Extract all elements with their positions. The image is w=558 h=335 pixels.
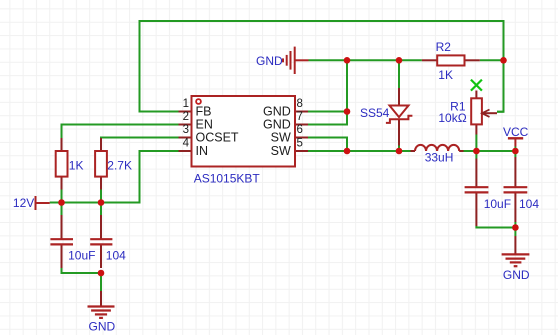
capacitor 10uF right top pin	[475, 159, 477, 187]
svg-text:6: 6	[297, 124, 303, 136]
svg-text:SW: SW	[271, 131, 291, 145]
inductor 33uH left stub	[411, 150, 416, 152]
capacitor 10uF left plates	[50, 239, 73, 244]
junction node VCC rail / R1	[473, 148, 480, 155]
wire right caps bottom join	[476, 226, 515, 228]
wire IN to 12V rail	[50, 151, 179, 203]
wire diode anode to GND rail	[398, 60, 400, 88]
wire diode cathode to SW rail	[398, 146, 400, 152]
wire pin7 GND up to rail	[308, 60, 347, 124]
svg-text:GND: GND	[263, 105, 291, 119]
potentiometer R1 top pin	[475, 91, 477, 99]
junction node VCC rail / VCC port	[512, 148, 519, 155]
wire GND rail right of R2	[480, 59, 504, 61]
power port VCC (bar)	[508, 138, 523, 146]
svg-text:104: 104	[106, 248, 126, 262]
svg-text:33uH: 33uH	[425, 150, 454, 164]
junction node 12V/2.7K	[98, 199, 105, 206]
capacitor 10uF right bottom pin	[475, 193, 477, 226]
capacitor 104 right top pin	[514, 157, 516, 187]
svg-text:104: 104	[519, 197, 539, 211]
IC U1 pin 3 stub	[179, 137, 192, 139]
capacitor 104 left top pin	[100, 215, 102, 239]
svg-text:AS1015KBT: AS1015KBT	[194, 172, 261, 186]
capacitor 10uF left top pin	[61, 215, 63, 239]
inductor 33uH arcs	[415, 145, 459, 151]
svg-text:FB: FB	[196, 105, 212, 119]
junction node GND rail / pin8 vertical	[344, 57, 351, 64]
resistor 2.7K top pin	[100, 138, 102, 151]
capacitor 104 right bottom pin	[514, 193, 516, 222]
no-ERC cross on R1 top	[471, 80, 482, 91]
wire VCC node to right 104	[514, 151, 516, 157]
wire EN to 1K resistor	[62, 125, 179, 139]
wire rail to 10uF cap	[61, 203, 63, 216]
IC U1 pin 8 stub	[295, 111, 308, 113]
svg-text:GND: GND	[89, 320, 116, 334]
wire wiper green	[497, 111, 504, 113]
svg-text:SW: SW	[271, 144, 291, 158]
wire R1 bottom to VCC rail	[475, 135, 477, 152]
svg-text:10uF: 10uF	[484, 197, 511, 211]
potentiometer R1 bottom pin	[475, 124, 477, 134]
capacitor 104 left plates	[90, 239, 112, 244]
svg-text:GND: GND	[503, 268, 530, 282]
junction node pin8 wire	[344, 108, 351, 115]
resistor 1K body	[56, 151, 68, 177]
wire OCSET to 2.7K resistor	[101, 137, 179, 140]
svg-text:3: 3	[183, 124, 189, 136]
wire 1K bottom to rail	[61, 190, 63, 203]
wire SW rail pin5 to inductor	[308, 150, 411, 152]
resistor R2 left pin	[422, 59, 437, 61]
capacitor 104 right plates	[504, 187, 528, 192]
diode SS54 cathode pin	[398, 120, 400, 146]
ground GND bottom-right	[502, 254, 530, 266]
ground stem bottom-left	[100, 291, 102, 306]
svg-text:10kΩ: 10kΩ	[438, 111, 466, 125]
resistor R2 body	[437, 55, 464, 65]
wire pin8 GND	[308, 111, 347, 113]
wire left caps bottom to GND	[62, 268, 102, 291]
svg-text:GND: GND	[263, 118, 291, 132]
diode SS54 triangle	[390, 106, 409, 118]
IC U1 pin 5 stub	[295, 150, 308, 152]
ground GND top (rotated, stem right)	[283, 47, 309, 74]
svg-text:1: 1	[183, 98, 189, 110]
svg-text:2: 2	[183, 111, 189, 123]
junction node GND rail / top loop	[500, 57, 507, 64]
IC U1 pin 1 stub	[179, 111, 192, 113]
svg-text:7: 7	[297, 111, 303, 123]
wire FB net: pin1 to top loop to R1 wiper	[140, 21, 504, 112]
svg-text:2.7K: 2.7K	[107, 159, 132, 173]
junction node left caps GND	[98, 270, 105, 277]
IC U1 AS1015KBT body	[192, 96, 296, 167]
svg-text:10uF: 10uF	[68, 248, 95, 262]
wire VCC power stub	[514, 147, 516, 152]
wire VCC node to right 10uF	[475, 151, 477, 159]
potentiometer R1 wiper arrow	[483, 112, 498, 114]
svg-text:12V: 12V	[13, 196, 34, 210]
diode SS54 anode pin	[398, 88, 400, 106]
diode SS54 schottky bar	[386, 116, 413, 123]
ground stem bottom-right	[514, 236, 516, 254]
junction node 12V/1K	[58, 199, 65, 206]
junction node SW rail / pin6	[344, 148, 351, 155]
ground GND bottom-left	[88, 307, 115, 318]
IC U1 pin 6 stub	[295, 137, 308, 139]
resistor 2.7K body	[95, 151, 107, 177]
wire GND rail left of R2	[309, 59, 422, 61]
svg-text:GND: GND	[256, 54, 283, 68]
capacitor 10uF left bottom pin	[61, 245, 63, 268]
svg-text:VCC: VCC	[503, 125, 529, 139]
capacitor 104 left bottom pin	[100, 245, 102, 268]
resistor 2.7K bottom pin	[100, 177, 102, 190]
inductor 33uH right stub	[459, 150, 463, 152]
junction node right caps GND	[512, 224, 519, 231]
IC U1 pin1 indicator	[196, 99, 201, 104]
resistor 1K bottom pin	[61, 177, 63, 190]
svg-text:OCSET: OCSET	[196, 131, 239, 145]
svg-text:1K: 1K	[69, 159, 84, 173]
svg-text:8: 8	[297, 98, 303, 110]
svg-text:IN: IN	[196, 144, 209, 158]
wire 2.7K bottom to rail	[100, 190, 102, 203]
capacitor 10uF right plates	[465, 187, 489, 192]
junction node SW rail / diode	[396, 148, 403, 155]
IC U1 pin 4 stub	[179, 150, 192, 152]
junction node GND rail / diode	[396, 57, 403, 64]
wire rail to 104 cap	[100, 203, 102, 216]
wire right 104 bottom to GND	[514, 222, 516, 236]
svg-text:5: 5	[297, 138, 303, 150]
wire inductor to VCC node	[464, 150, 516, 152]
resistor R2 right pin	[465, 59, 480, 61]
svg-text:SS54: SS54	[360, 106, 390, 120]
resistor 1K top pin	[61, 138, 63, 151]
potentiometer R1 body	[471, 98, 482, 124]
svg-text:4: 4	[183, 138, 190, 150]
power port 12V	[36, 196, 50, 210]
svg-text:R2: R2	[436, 40, 452, 54]
IC U1 pin 2 stub	[179, 124, 192, 126]
svg-text:1K: 1K	[438, 68, 453, 82]
svg-text:EN: EN	[196, 118, 213, 132]
IC U1 pin 7 stub	[295, 124, 308, 126]
wire pin6 SW down to rail	[308, 138, 347, 152]
